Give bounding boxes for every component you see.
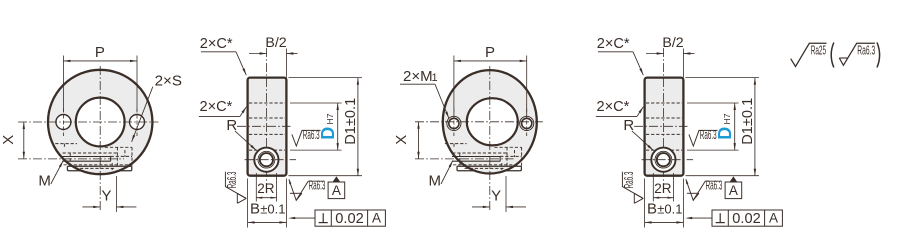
view3 hidden line upper-left xyxy=(445,143,467,145)
view1 hidden line slot top xyxy=(63,152,118,154)
svg-text:A: A xyxy=(372,211,381,226)
view1 hidden rect right edge xyxy=(131,147,133,166)
view1 slot upper edge xyxy=(62,156,110,158)
svg-text:D: D xyxy=(715,127,735,140)
view3 hidden line slot top xyxy=(452,152,507,154)
note sqrt Ra25 xyxy=(791,43,827,66)
view4 roughness Ra6.3 seat xyxy=(686,179,723,201)
view1 hidden rect inner line xyxy=(124,150,126,157)
view4 vertical centerline xyxy=(663,48,665,192)
view1 seat left wing xyxy=(67,166,80,171)
view2 leader R xyxy=(235,131,257,151)
view4 dimension D1 extension lines xyxy=(686,78,760,176)
view3 slot lower edge xyxy=(452,160,500,162)
view3 dimension P extension lines xyxy=(454,56,527,116)
view2 dimension B extension lines xyxy=(248,179,287,228)
svg-text:Ra6.3: Ra6.3 xyxy=(700,129,717,143)
svg-text:B/2: B/2 xyxy=(662,35,683,51)
view2 screw thread circle xyxy=(258,151,275,168)
svg-text:2×C*: 2×C* xyxy=(200,36,233,52)
view4 leader 2xC* lower xyxy=(596,107,644,117)
svg-text:1: 1 xyxy=(432,72,438,84)
view4 screw circle h-centerline xyxy=(642,159,693,161)
view1 hidden line at seat xyxy=(75,167,115,169)
view4 datum A symbol xyxy=(725,176,742,198)
svg-text:A: A xyxy=(332,183,341,198)
view1 bore circle xyxy=(76,98,125,147)
view1 hidden short vertical xyxy=(111,163,113,170)
view3 right tapped hole xyxy=(520,116,534,130)
view2 dimension B/2 line xyxy=(249,52,298,54)
view4 screw thread circle xyxy=(655,151,672,168)
view4 dimension 2R extension lines xyxy=(653,173,673,202)
view3 dimension Y line xyxy=(472,206,526,208)
view4 hole hidden line lower xyxy=(646,133,682,135)
view3 right hole centerline xyxy=(526,109,528,137)
view4 perpendicularity frame xyxy=(712,210,782,227)
view4 bore hidden line bottom xyxy=(646,149,682,151)
view3 label 2xM1 xyxy=(403,68,438,85)
view2 leader 2xC* upper xyxy=(201,52,246,75)
view2 roughness Ra6.3 left face xyxy=(225,171,246,203)
view2 hole hidden line upper xyxy=(249,117,285,119)
view4 body outline xyxy=(645,78,684,176)
view4 dimension B line xyxy=(645,221,684,223)
svg-text:P: P xyxy=(485,44,495,61)
view2 screw boss circle xyxy=(254,148,278,172)
view1 outer circle (OD) xyxy=(48,70,152,174)
view1 hidden tick xyxy=(63,144,65,149)
view4 roughness Ra6.3 bore xyxy=(689,129,718,146)
view2 dimension D1 line xyxy=(357,78,359,176)
svg-text:D1±0.1: D1±0.1 xyxy=(343,98,359,145)
view2 datum A symbol xyxy=(328,176,345,198)
svg-text:Ra6.3: Ra6.3 xyxy=(857,45,875,59)
view2 dimension D1 extension lines xyxy=(289,78,363,176)
view1 left hole centerline xyxy=(62,109,64,137)
view3 seat left wing xyxy=(457,166,474,171)
view2 dimension 2R line xyxy=(256,197,276,199)
view4 leader 2xC* upper xyxy=(598,52,643,75)
view1 hidden line below slot xyxy=(64,164,129,166)
svg-text:±0.1: ±0.1 xyxy=(657,202,682,217)
view3 left tapped hole xyxy=(447,116,461,130)
view3 outer circle (OD) xyxy=(443,70,537,173)
view4 dimension D extension lines xyxy=(687,103,739,150)
svg-text:A: A xyxy=(729,183,738,198)
view4 label D H7 xyxy=(715,113,735,140)
view1 dimension Y line xyxy=(82,206,136,208)
view3 hidden line below slot xyxy=(453,164,517,166)
svg-text:Y: Y xyxy=(101,187,111,204)
svg-text:Ra6.3: Ra6.3 xyxy=(623,171,637,188)
svg-text:2R: 2R xyxy=(257,181,275,196)
view2 screw minor circle xyxy=(260,153,273,166)
view1 leader 2xS xyxy=(132,87,153,142)
svg-text:2×C*: 2×C* xyxy=(200,99,233,115)
svg-text:2×M: 2×M xyxy=(403,68,433,85)
view2 perpendicularity leader xyxy=(288,217,315,219)
view3 left hole centerline xyxy=(453,109,455,137)
view3 hidden short vertical left xyxy=(459,153,461,165)
view4 dimension B/2 extension xyxy=(682,49,684,78)
svg-text:X: X xyxy=(0,135,17,145)
view1 right mounting hole xyxy=(130,115,145,130)
view2 screw circle h-centerline xyxy=(245,159,296,161)
svg-text:H7: H7 xyxy=(325,113,335,124)
view3 horizontal centerline xyxy=(415,121,543,123)
svg-text:M: M xyxy=(429,173,442,190)
view3 hidden line at seat xyxy=(465,167,505,169)
svg-text:0.02: 0.02 xyxy=(335,211,363,227)
note close paren xyxy=(877,43,880,68)
view4 screw minor circle xyxy=(657,153,670,166)
view2 roughness Ra6.3 seat xyxy=(289,179,326,201)
view3 leader 2xM1 xyxy=(400,84,449,118)
view4 dimension D1 line xyxy=(754,78,756,176)
view1 dimension Y extension line xyxy=(115,176,117,212)
view2 horizontal centerline xyxy=(237,125,291,127)
view3 hidden rect right edge xyxy=(521,147,523,166)
view3 slot end cap xyxy=(499,157,501,162)
view4 leader R xyxy=(632,131,654,151)
view3 M-hole centerline xyxy=(415,158,514,160)
view4 label B tol xyxy=(647,201,683,218)
view1 leader M xyxy=(51,161,63,184)
view3 hidden rect left edge xyxy=(506,147,508,166)
view1 hidden line upper-right xyxy=(105,146,132,148)
view2 label D H7 xyxy=(318,113,338,140)
view4 dimension D line xyxy=(734,103,736,150)
svg-text:A: A xyxy=(769,211,778,226)
view1 right hole centerline xyxy=(136,109,138,137)
svg-text:M: M xyxy=(38,173,51,190)
svg-text:2×C*: 2×C* xyxy=(597,99,630,115)
view2 leader 2xC* lower xyxy=(199,107,247,117)
svg-text:Ra6.3: Ra6.3 xyxy=(226,171,240,188)
svg-text:B/2: B/2 xyxy=(265,35,286,51)
view4 perpendicularity leader xyxy=(685,217,712,219)
svg-text:D: D xyxy=(318,127,338,140)
view2 vertical centerline xyxy=(266,48,268,192)
view3 bore circle xyxy=(467,98,518,145)
view1 horizontal centerline xyxy=(18,121,158,123)
view3 hidden line upper-right xyxy=(494,146,521,148)
view2 dimension 2R extension lines xyxy=(256,173,276,202)
svg-text:D1±0.1: D1±0.1 xyxy=(740,98,756,145)
view4 horizontal centerline xyxy=(634,125,688,127)
note open paren xyxy=(831,43,834,68)
svg-text:B: B xyxy=(647,201,657,218)
svg-text:Y: Y xyxy=(491,187,501,204)
view1 left mounting hole xyxy=(56,115,71,130)
view1 slot lower edge xyxy=(62,160,110,162)
svg-text:Ra6.3: Ra6.3 xyxy=(309,180,326,194)
svg-text:P: P xyxy=(95,44,105,61)
view3 hidden rect cross dash xyxy=(500,155,521,157)
svg-text:±0.1: ±0.1 xyxy=(260,202,285,217)
view2 body outline xyxy=(248,78,287,176)
view4 dimension 2R line xyxy=(653,197,673,199)
svg-text:2×S: 2×S xyxy=(155,72,182,89)
view1 hidden short vertical left xyxy=(69,153,71,165)
svg-text:Ra6.3: Ra6.3 xyxy=(303,129,320,143)
svg-text:X: X xyxy=(393,135,410,145)
view3 dimension Y extension line xyxy=(505,176,507,212)
svg-text:2×C*: 2×C* xyxy=(597,36,630,52)
svg-text:Ra6.3: Ra6.3 xyxy=(706,180,723,194)
view2 dimension B/2 extension xyxy=(285,49,287,78)
view3 seat right wing xyxy=(506,166,521,171)
view3 vertical centerline xyxy=(489,66,491,212)
view4 dimension B/2 line xyxy=(646,52,695,54)
view2 roughness Ra6.3 bore xyxy=(292,129,321,146)
view3 seating-flat step line xyxy=(457,165,521,167)
view3 slot upper edge xyxy=(452,156,500,158)
svg-text:0.02: 0.02 xyxy=(732,211,760,227)
svg-text:B: B xyxy=(250,201,260,218)
view1 hidden line upper-left xyxy=(55,143,77,145)
view3 dimension X line xyxy=(417,122,419,159)
view4 hole hidden line upper xyxy=(646,117,682,119)
view1 seat right wing xyxy=(120,166,132,171)
view1 dimension X line xyxy=(23,122,25,159)
svg-text:2R: 2R xyxy=(654,181,672,196)
svg-text:Ra25: Ra25 xyxy=(811,44,827,58)
view4 screw boss circle xyxy=(651,148,675,172)
view1 dimension P extension lines xyxy=(63,56,137,112)
view3 hidden rect inner line xyxy=(514,150,516,157)
view2 perpendicularity frame xyxy=(315,210,385,227)
view2 bore hidden line bottom xyxy=(249,149,285,151)
view1 vertical centerline xyxy=(99,66,101,212)
view1 slot end cap xyxy=(110,157,112,162)
view2 dimension D extension lines xyxy=(290,103,342,150)
view2 dimension B line xyxy=(248,221,287,223)
view1 seating-flat step line xyxy=(67,165,131,167)
view2 dimension D line xyxy=(337,103,339,150)
view1 hidden rect left edge xyxy=(116,147,118,166)
view3 hidden tick xyxy=(453,144,455,149)
view4 dimension B extension lines xyxy=(645,179,684,228)
svg-text:H7: H7 xyxy=(722,113,732,124)
view3 dimension P line xyxy=(454,60,527,62)
view1 hidden rect cross dash xyxy=(111,155,132,157)
view3 leader M xyxy=(441,161,453,184)
view3 hidden short vertical xyxy=(501,163,503,170)
note sqrt Ra6.3 xyxy=(839,43,875,65)
view4 roughness Ra6.3 left face xyxy=(622,171,643,203)
view2 bore hidden line top xyxy=(249,102,285,104)
view2 hole hidden line lower xyxy=(249,133,285,135)
view1 M-hole centerline xyxy=(18,158,124,160)
view4 bore hidden line top xyxy=(646,102,682,104)
view2 label B tol xyxy=(250,201,286,218)
view1 dimension P line xyxy=(63,60,137,62)
